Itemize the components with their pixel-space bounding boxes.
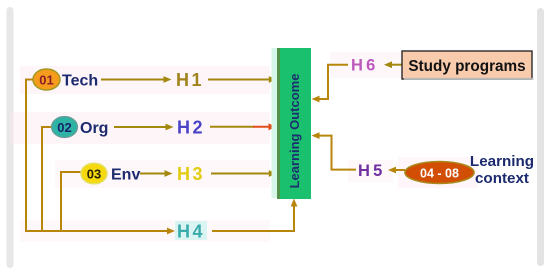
wire Env to H3 (140, 173, 167, 175)
wire bracket from Env down (61, 172, 81, 230)
wire H2 to box (gold then red) (210, 126, 254, 128)
ellipse 04-08 (405, 162, 474, 184)
faint ghost tint band H6 row (330, 52, 402, 78)
faint ghost tint behind context ellipse (398, 157, 478, 188)
ellipse 02 (52, 117, 78, 138)
arrowhead into H4 (167, 228, 175, 235)
svg-text:Tech: Tech (62, 73, 98, 90)
wire H3 to box (211, 173, 271, 175)
green box darker left border (277, 48, 280, 199)
ellipse 03 (81, 163, 107, 184)
wire Study programs to H6 (390, 64, 402, 66)
faint ghost tint band row1 (20, 66, 270, 94)
svg-text:H3: H3 (177, 164, 205, 184)
faint ghost tint band row3 (55, 160, 270, 188)
svg-text:H5: H5 (358, 162, 386, 180)
svg-text:01: 01 (39, 73, 53, 88)
wire H6 to box right side (317, 65, 348, 99)
svg-text:Env: Env (111, 167, 140, 184)
wire Tech to H1 (101, 79, 166, 81)
wire context ellipse to H5 (394, 169, 405, 171)
right gray pill bar (537, 8, 544, 266)
wire bracket from Org down (42, 127, 52, 230)
H4 highlight background (175, 221, 207, 240)
wire H4 to green box bottom (212, 202, 294, 231)
green box Learning Outcome (277, 48, 311, 199)
svg-text:Study programs: Study programs (408, 58, 525, 75)
wire Org to H2 (114, 126, 168, 128)
svg-text:H1: H1 (176, 70, 204, 90)
wire bracket from Tech down to H4 line (26, 80, 171, 232)
svg-text:04 - 08: 04 - 08 (420, 167, 459, 181)
svg-text:02: 02 (57, 120, 71, 135)
faint ghost tint band row4 (20, 220, 270, 242)
faint ghost tint behind H5 (348, 160, 393, 182)
faint ghost tint band row2 (10, 112, 270, 144)
svg-text:03: 03 (87, 167, 101, 182)
light cyan strip left of green box (272, 48, 278, 198)
wire H5 to box right side (317, 136, 356, 170)
svg-text:H4: H4 (177, 222, 205, 242)
ellipse 01 (33, 69, 60, 90)
svg-text:context: context (475, 170, 529, 187)
svg-text:Org: Org (80, 120, 108, 137)
box Study programs (402, 51, 532, 79)
wire H1 to box (208, 79, 271, 81)
left gray pill bar (7, 7, 14, 268)
svg-text:Learning Outcome: Learning Outcome (287, 74, 302, 189)
svg-text:H6: H6 (351, 57, 379, 75)
svg-text:H2: H2 (177, 118, 205, 138)
svg-text:Learning: Learning (470, 153, 534, 170)
arrowhead up into box bottom (291, 199, 298, 207)
